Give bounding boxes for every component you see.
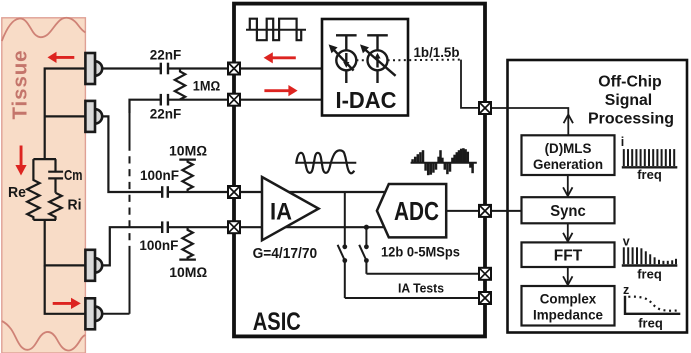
electrode E3 xyxy=(85,250,102,281)
pad P4 (IA-) xyxy=(228,221,240,233)
svg-text:Processing: Processing xyxy=(588,110,674,127)
svg-text:Sync: Sync xyxy=(550,203,586,220)
svg-text:1b/1.5b: 1b/1.5b xyxy=(414,45,460,60)
wire bus to E3 xyxy=(45,220,85,266)
arrow MLS to Sync xyxy=(563,175,572,196)
red current arrow (tissue, pointing down) xyxy=(15,146,26,176)
resistor R3 10MOhm (below wire4) xyxy=(179,227,196,259)
pad P1 (I-DAC drive) xyxy=(228,63,240,75)
sampled waveform icon xyxy=(411,148,477,175)
capacitor C4 100nF plates xyxy=(162,221,168,233)
switch S2 vertical tap from wire4 xyxy=(359,227,479,274)
red current arrow (tissue bottom, pointing right) xyxy=(53,298,81,309)
svg-text:IA: IA xyxy=(270,198,292,225)
wire4: E3 to IA- and ADC bottom (with gap for 100nF) xyxy=(102,227,384,265)
svg-text:100nF: 100nF xyxy=(140,168,179,183)
PRBS waveform icon xyxy=(246,19,306,41)
pad P5 (1b/1.5b MLS input) xyxy=(479,102,491,114)
analog waveform icon xyxy=(296,150,357,173)
tissue top wavy line xyxy=(2,18,86,41)
svg-text:10MΩ: 10MΩ xyxy=(169,142,207,158)
resistor Ri xyxy=(49,193,61,220)
svg-text:10MΩ: 10MΩ xyxy=(169,264,207,280)
switch S1 vertical tap from wire3 xyxy=(338,192,479,298)
svg-text:ADC: ADC xyxy=(394,196,439,226)
svg-text:22nF: 22nF xyxy=(150,106,182,121)
electrode E2 xyxy=(85,101,102,132)
junction E4 wire to riser xyxy=(102,313,130,315)
svg-text:(D)MLS: (D)MLS xyxy=(545,141,592,156)
wire 1b/1.5b down to pad xyxy=(461,60,479,108)
svg-text:z: z xyxy=(623,283,629,297)
I-DAC left adjust arrow xyxy=(333,49,354,71)
svg-text:22nF: 22nF xyxy=(150,48,182,63)
pad P3 (IA+) xyxy=(228,186,240,198)
op-amp IA xyxy=(262,177,319,240)
wire ADC output to pad xyxy=(446,210,479,212)
capacitor Cm xyxy=(48,159,63,193)
ASIC box xyxy=(234,4,485,337)
block Complex Impedance xyxy=(522,286,615,326)
resistor R2 10MOhm (above wire3) xyxy=(179,160,196,192)
svg-text:Re: Re xyxy=(8,184,26,201)
resistor R1 1MOhm (between wire1 and wire2) xyxy=(175,69,185,100)
I-DAC current source right (up) xyxy=(367,35,388,83)
I-DAC box U1 xyxy=(322,19,408,116)
block Sync xyxy=(522,197,615,223)
svg-text:i: i xyxy=(621,135,624,149)
wire bus to E4 xyxy=(45,265,85,313)
svg-text:Cm: Cm xyxy=(64,167,83,184)
pad P7 (IA test upper) xyxy=(479,268,491,280)
wire2: E4 riser to I-DAC (with gap for 22nF) xyxy=(130,100,322,113)
pad P8 (IA test lower) xyxy=(479,292,491,304)
svg-text:freq: freq xyxy=(638,315,663,330)
capacitor C1 22nF plates xyxy=(161,63,168,75)
svg-text:100nF: 100nF xyxy=(139,238,178,253)
resistor Re xyxy=(27,159,39,220)
capacitor C2 22nF plates xyxy=(161,94,168,106)
up arrowhead on MLS wire xyxy=(564,115,573,124)
arrow Sync to FFT xyxy=(563,223,572,241)
svg-text:G=4/17/70: G=4/17/70 xyxy=(253,246,318,262)
wire ADC pad to Sync xyxy=(491,210,522,212)
block FFT xyxy=(522,242,615,267)
pad P6 (ADC output) xyxy=(479,205,491,217)
pad P2 (I-DAC return) xyxy=(228,94,240,106)
red arrow (ASIC, pointing left) xyxy=(264,52,296,63)
node bar top of RC network xyxy=(33,158,56,160)
svg-text:Off-Chip: Off-Chip xyxy=(598,73,662,90)
svg-text:FFT: FFT xyxy=(554,247,583,264)
wire E1 to bus xyxy=(45,69,85,160)
I-DAC right adjust arrow xyxy=(364,49,396,76)
tissue region xyxy=(2,18,86,353)
svg-text:Signal: Signal xyxy=(605,92,652,109)
off-chip box xyxy=(508,60,688,333)
capacitor C3 100nF plates xyxy=(162,186,168,198)
arrow FFT to Complex Impedance xyxy=(563,267,572,285)
dotted control line between sources and out to right xyxy=(356,59,461,62)
wire3: E2 to IA+ and ADC top (with gap for 100nF) xyxy=(102,116,385,192)
svg-text:12b 0-5MSps: 12b 0-5MSps xyxy=(381,244,460,259)
svg-text:Complex: Complex xyxy=(540,290,597,306)
block (D)MLS Generation xyxy=(522,135,615,175)
wire1: E1 to I-DAC (with gap for 22nF) xyxy=(102,67,322,69)
mini plot i vs freq xyxy=(622,149,678,167)
svg-text:freq: freq xyxy=(637,167,662,182)
dashed optional wire from wire2 down to E4 wire xyxy=(102,100,130,314)
I-DAC current source left (down) xyxy=(336,35,357,83)
wire MLS to ASIC pad xyxy=(491,108,568,135)
svg-text:IA Tests: IA Tests xyxy=(398,281,444,296)
electrode E1 xyxy=(85,53,102,84)
svg-text:freq: freq xyxy=(637,267,662,282)
svg-text:ASIC: ASIC xyxy=(253,308,301,336)
node bar bottom of RC network xyxy=(33,219,56,221)
red current arrow (tissue top, pointing left) xyxy=(48,52,75,63)
red arrow (ASIC, pointing right) xyxy=(264,85,297,96)
mini plot z vs freq xyxy=(625,296,680,314)
electrode E4 xyxy=(85,298,102,329)
svg-text:1MΩ: 1MΩ xyxy=(193,78,221,93)
svg-text:Impedance: Impedance xyxy=(533,307,603,323)
tissue bottom wavy line xyxy=(2,321,86,351)
svg-text:Tissue: Tissue xyxy=(9,50,32,120)
svg-text:Generation: Generation xyxy=(533,157,603,172)
svg-text:Ri: Ri xyxy=(68,197,82,214)
svg-text:v: v xyxy=(623,234,630,248)
mini plot v vs freq xyxy=(622,247,678,265)
ADC block xyxy=(377,184,446,237)
svg-text:I-DAC: I-DAC xyxy=(336,87,397,113)
wire E2 stub xyxy=(45,115,85,117)
tissue internal wiring xyxy=(27,69,85,314)
